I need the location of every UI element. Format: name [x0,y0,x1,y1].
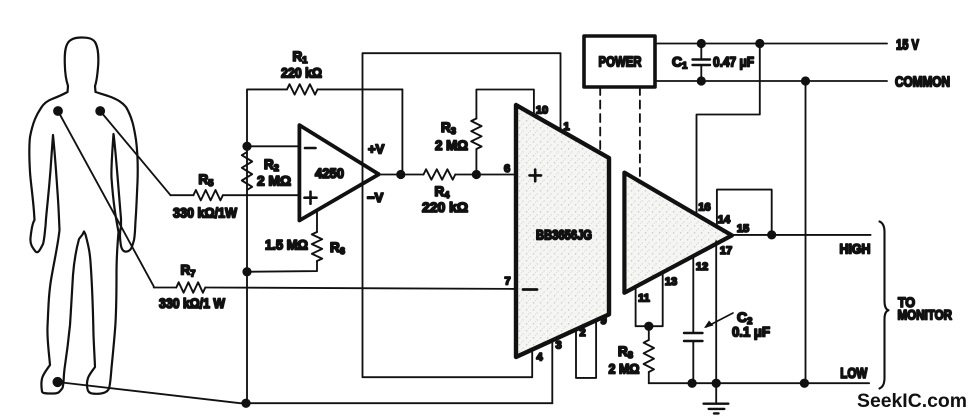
svg-text:POWER: POWER [599,55,642,71]
svg-text:COMMON: COMMON [895,75,950,91]
svg-text:1.5 MΩ: 1.5 MΩ [265,237,308,253]
label -V [367,190,384,205]
wire: COMMON rail [655,80,887,82]
wire: 15V to pin 16 [697,44,760,214]
pin 6 label [504,163,510,175]
svg-text:330 kΩ/1W: 330 kΩ/1W [173,205,238,221]
resistor R6 1.5M [247,210,345,271]
label COMMON [895,75,950,91]
pin 1 label [563,121,569,133]
wire: feedback drop to output [401,89,403,174]
junction: C1 bottom on COMMON rail [698,77,705,84]
svg-text:0.47 μF: 0.47 μF [713,54,754,70]
pin 17 wire to ground rail [716,241,732,383]
pin 3 wire to bottom rail [552,340,561,404]
svg-text:13: 13 [665,276,677,288]
pin 16 label [698,202,710,214]
svg-text:2 MΩ: 2 MΩ [257,173,291,189]
op-amp U1 4250 [299,125,378,220]
wire: guard/supply loop (pin1 top, left vertical, bottom to pin4) [363,53,561,377]
power module POWER [584,36,655,87]
output amplifier U3 [624,173,732,293]
junction: bottom rail [242,400,249,407]
svg-text:BB3656JG: BB3656JG [536,228,592,243]
electrode dot left ankle [53,378,61,386]
svg-text:220 kΩ: 220 kΩ [281,65,322,81]
ground symbol [704,383,729,413]
wire: op-amp output to pin 6 [379,174,516,176]
label HIGH [840,241,871,257]
junction: pin17/ground on LOW rail [713,380,720,387]
wire: right chest electrode to R5 [100,111,170,195]
svg-text:LOW: LOW [840,366,867,382]
pin 4 wire and label [536,352,543,364]
wire: 15V rail [655,43,887,45]
junction: COMMON drop on LOW rail [801,380,808,387]
svg-text:MONITOR: MONITOR [898,307,953,323]
junction: feedback/output [397,171,404,178]
junction: C2 on LOW rail [688,380,695,387]
human body figure [29,38,138,394]
svg-text:7: 7 [504,276,510,288]
resistor R3 2M [435,90,534,175]
wire: left chest electrode to R7 [58,111,154,286]
svg-text:17: 17 [720,245,732,257]
svg-text:2: 2 [579,327,585,339]
isolation amplifier U2 BB3656JG [516,105,609,357]
svg-text:SeekIC.com: SeekIC.com [857,391,967,412]
svg-text:15: 15 [737,223,749,235]
svg-text:14: 14 [718,214,731,226]
svg-text:16: 16 [698,202,710,214]
pin 10 label [536,105,548,117]
resistor R7 330k/1W [154,263,516,312]
svg-text:4250: 4250 [315,165,344,181]
pin 7 label [504,276,510,288]
resistor R2 2M [242,152,291,190]
dashed link POWER to U2 [599,87,601,153]
junction: R8 top [645,323,652,330]
svg-text:1: 1 [563,121,569,133]
electrode dot right chest [96,107,104,115]
junction: C1 top on 15V rail [698,40,705,47]
wire: COMMON drop to LOW [805,81,807,383]
svg-text:0.1 μF: 0.1 μF [732,324,770,340]
svg-text:2 MΩ: 2 MΩ [609,361,640,377]
pin 14 loop to output [717,190,772,235]
svg-text:2 MΩ: 2 MΩ [435,137,468,153]
resistor R1 220k feedback [248,49,402,95]
pin 12 / capacitor C2 0.1uF [684,256,770,383]
junction: pin14 loop on HIGH line [768,231,775,238]
junction: R3 bottom / pin6 wire [473,171,480,178]
junction: R2 top / inverting input [243,143,250,150]
svg-text:330 kΩ/1 W: 330 kΩ/1 W [159,295,226,311]
wire: LOW rail [649,382,869,384]
pins 11 and 13 to R8 [636,272,678,326]
pins 2 and 9 jumper [576,315,607,378]
resistor R4 220k [422,169,468,215]
dashed link POWER to U3 [639,87,641,183]
wire: inverting node vertical (R1 left end down to bottom rail) [247,89,248,403]
wire: ankle electrode to bottom rail [58,382,553,403]
junction: pin16 feed on 15V rail [756,40,763,47]
label +V [368,142,385,157]
svg-text:4: 4 [536,352,543,364]
watermark SeekIC.com [857,391,967,412]
svg-text:15 V: 15 V [896,38,919,54]
svg-text:10: 10 [536,105,548,117]
junction: COMMON drop [802,77,809,84]
wire: inverting input [247,145,299,147]
label LOW [840,366,867,382]
svg-text:−V: −V [367,190,384,205]
svg-text:3: 3 [555,340,561,352]
svg-text:9: 9 [600,315,606,327]
electrode dot left chest [54,107,62,115]
label 15 V [896,38,919,54]
svg-text:6: 6 [504,163,510,175]
pin 15 output wire HIGH [732,223,871,235]
brace to monitor [880,222,953,389]
svg-text:220 kΩ: 220 kΩ [422,199,468,215]
svg-text:+V: +V [368,142,385,157]
capacitor C1 0.47uF [672,44,754,82]
junction: R6 return [243,268,250,275]
resistor R8 2M [609,326,655,383]
svg-text:HIGH: HIGH [840,241,871,257]
resistor R5 330k/1W [171,172,300,221]
svg-text:11: 11 [638,293,650,305]
svg-text:12: 12 [696,261,708,273]
